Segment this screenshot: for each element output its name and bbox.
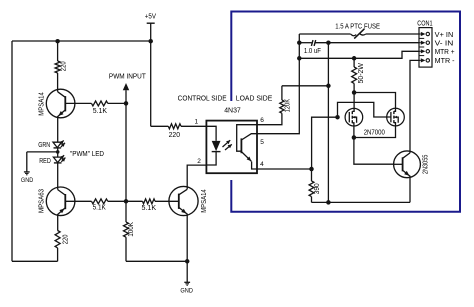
svg-text:5: 5 [260,139,264,146]
wire bottom left [12,260,58,262]
wire gate feed [312,117,338,169]
svg-text:120K: 120K [284,99,291,113]
svg-text:6: 6 [260,117,264,124]
svg-text:+5V: +5V [145,14,156,21]
resistor R4 220 [168,124,181,129]
wire cap to CON1 pin2 [315,42,419,44]
LED D2 RED [53,157,62,162]
wire Q3 collector to opto pin 2 [187,165,206,189]
PWM input arrow [123,83,129,90]
svg-text:5.1K: 5.1K [93,204,106,211]
wire fuse to CON1 pin1 [366,33,419,35]
wire Vminus left segment [299,42,311,44]
svg-text:MTR -: MTR - [435,58,456,65]
svg-text:V- IN: V- IN [435,40,454,47]
transistor Q7 2N3055 [394,151,421,178]
svg-text:LOAD SIDE: LOAD SIDE [236,95,273,102]
wire pin4 to gate node [257,168,312,170]
wire sources to Q7 base [354,138,394,165]
op-amp U1 4N37 box [206,121,257,174]
wire R5 to node [108,200,126,202]
transistor Q3 MPSA14 [169,186,198,215]
svg-text:5.1K: 5.1K [93,108,108,115]
wire R2 to PWM node [108,102,126,104]
node junction K [352,135,357,140]
LED D1 GRN [53,142,62,147]
node junction F [326,40,331,45]
svg-text:1.0 uF: 1.0 uF [304,48,321,55]
wire top supply [12,40,151,42]
node junction +5V rail [148,39,153,44]
node junction top of R1 [55,39,60,44]
wire drains [354,93,395,109]
resistor R10 390 [311,169,313,181]
svg-text:50-2W: 50-2W [358,63,365,84]
svg-text:PWM INPUT: PWM INPUT [109,73,147,80]
wire bottom rail [312,201,411,203]
svg-text:1.5 A PTC FUSE: 1.5 A PTC FUSE [335,23,380,30]
node junction G [297,56,302,61]
wire left rail [11,41,13,261]
resistor R5 5.1K [92,199,108,204]
svg-text:CON1: CON1 [417,21,432,28]
node junction D [326,84,331,89]
svg-text:5.1K: 5.1K [142,205,157,212]
resistor R1 220 [57,41,59,61]
svg-text:MPSA14: MPSA14 [38,92,45,116]
wire LED junction to ground [27,148,58,172]
svg-text:220: 220 [60,61,67,71]
transistor Q5 2N7000 [345,108,363,126]
resistor R3 100K [124,222,129,237]
wire R8 top to Vminus [282,85,329,87]
resistor R8 120K [280,100,284,113]
wire Q3 emitter to ground rail [126,260,187,262]
svg-text:390: 390 [314,183,321,194]
ground GND1 [24,171,30,173]
node junction J gate [335,115,340,120]
svg-text:"PWM" LED: "PWM" LED [70,151,104,158]
wire +5V to R4 [151,125,169,127]
wire Q2 base to R5 [65,200,91,202]
resistor R6 5.1K [126,200,143,202]
wire RED to Q2 [57,163,59,190]
node junction H [352,56,357,61]
svg-text:MTR +: MTR + [435,49,455,56]
svg-text:4: 4 [260,161,264,168]
svg-text:CONTROL SIDE: CONTROL SIDE [178,95,227,102]
svg-text:2: 2 [197,158,201,165]
svg-text:V+ IN: V+ IN [435,32,454,39]
wire V+ to fuse [299,33,350,35]
wire R4 to opto pin 1 [181,125,206,127]
svg-text:2N7000: 2N7000 [364,129,385,136]
resistor R7 220 [57,230,59,232]
svg-text:2N3055: 2N3055 [422,155,429,175]
node junction I [352,90,357,95]
wire sources join [354,126,396,138]
wire gate bus [338,102,391,117]
node junction E [297,40,302,45]
ground GND2 [186,261,188,282]
node LED junction [56,150,60,154]
capacitor C1 1.0uF [311,40,313,46]
U1 internal LED [206,126,216,141]
resistor R2 5.1K [92,101,108,106]
svg-text:GRN: GRN [38,142,50,149]
svg-text:220: 220 [62,234,69,244]
wire MTR- run [410,60,419,152]
svg-text:MPSA63: MPSA63 [38,189,45,213]
svg-text:4N37: 4N37 [224,108,241,115]
svg-text:220: 220 [169,132,180,139]
wire Vminus vertical [327,43,329,203]
U1 phototransistor [240,138,242,153]
node junction B [124,199,129,204]
node junction M [326,200,331,205]
resistor R9 50-2W [353,58,355,67]
node junction L [309,167,314,172]
svg-text:MPSA14: MPSA14 [201,189,208,213]
transistor Q1 MPSA14 [46,89,75,118]
svg-text:GND: GND [21,177,34,184]
wire pin6 to R8 [257,113,282,125]
node junction C [185,259,190,264]
svg-text:GND: GND [180,288,193,295]
wire MTR+ run [299,51,419,58]
svg-text:RED: RED [39,158,51,165]
transistor Q2 MPSA63 [46,187,75,216]
wire pin5 to V+ rail [257,34,299,134]
wire PWM vertical [125,103,127,222]
load side boundary box [231,12,460,212]
transistor Q6 2N7000 [387,108,405,126]
node PWM input junction A [124,101,129,106]
svg-text:1: 1 [194,118,198,125]
svg-text:100K: 100K [128,222,135,237]
wire Q1 base to R2 [65,102,91,104]
